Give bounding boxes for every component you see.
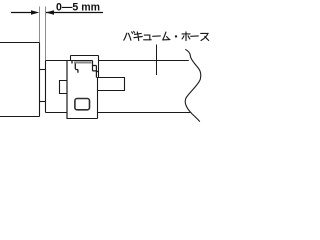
left tab: [60, 81, 68, 94]
label katakana long bar 2: [191, 35, 199, 37]
label katakana ho: [182, 32, 190, 41]
notch left staircase: [72, 61, 78, 73]
hose bottom line right of clamp: [98, 112, 191, 114]
clamp cap left edge: [70, 56, 72, 61]
label katakana ki: [134, 32, 142, 41]
hose bottom line left of clamp: [46, 112, 68, 114]
hose top line (right part): [99, 60, 189, 62]
clamp body bottom edge: [67, 118, 98, 120]
arrowhead left (points right): [31, 10, 39, 14]
hose left end edge: [45, 61, 47, 113]
label katakana long bar 1: [153, 35, 161, 37]
hose break S-curve: [185, 49, 200, 121]
label katakana mu: [163, 32, 170, 40]
pipe bottom edge: [40, 101, 46, 103]
notch right staircase: [93, 61, 99, 78]
inner rounded rect: [75, 99, 90, 110]
leader line: [156, 45, 158, 76]
label katakana ba: [124, 31, 135, 40]
label middle dot: [175, 35, 177, 37]
clamp cap right edge: [98, 56, 100, 78]
panel right edge: [39, 43, 41, 117]
notch gray band: [74, 61, 92, 63]
extension line E2 (hose end): [45, 7, 47, 61]
label katakana su: [201, 33, 209, 40]
right arm: [96, 78, 124, 91]
panel top edge: [0, 42, 40, 44]
clamp cap top: [71, 55, 99, 57]
arrowhead right (points left): [46, 10, 54, 14]
clamp body left edge: [66, 61, 68, 119]
clamp body right edge: [97, 78, 99, 119]
panel bottom edge: [0, 116, 40, 118]
pipe top edge: [40, 69, 46, 71]
label katakana small-yu: [144, 35, 152, 40]
hose top line (left part, under cap bar): [46, 60, 93, 62]
svg-text:0—5 mm: 0—5 mm: [56, 2, 100, 14]
dimension line left: [11, 12, 32, 14]
extension line E1 (panel edge): [39, 7, 41, 43]
dimension line right: [46, 12, 103, 14]
